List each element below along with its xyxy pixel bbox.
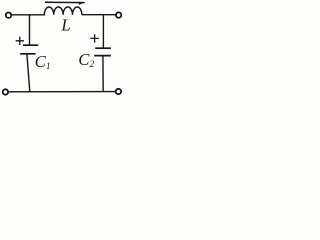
wire top-right horizontal	[82, 14, 116, 16]
wire C2 lower lead	[102, 56, 104, 92]
svg-text:L: L	[60, 16, 70, 35]
wire C1 lower lead	[27, 54, 30, 91]
inductor L core bar	[45, 1, 85, 3]
wire C2 upper lead	[102, 15, 104, 48]
capacitor C2 top plate	[95, 47, 111, 49]
terminal ground bottom-left	[3, 89, 8, 94]
terminal ground bottom-right	[116, 89, 121, 94]
capacitor C1 top plate	[23, 44, 38, 46]
terminal input top-left	[6, 13, 11, 18]
capacitor C2 bottom plate	[94, 55, 111, 57]
wire top-left horizontal	[12, 14, 45, 16]
capacitor C2 polarity plus	[90, 34, 98, 42]
capacitor C1 polarity plus	[16, 37, 24, 45]
wire bottom rail	[8, 91, 116, 93]
capacitor C1 bottom plate	[20, 53, 35, 55]
inductor L core bar arrow end	[79, 2, 86, 5]
terminal output top-right	[116, 12, 121, 17]
wire C1 upper lead	[29, 15, 31, 45]
inductor L coil	[44, 7, 82, 15]
